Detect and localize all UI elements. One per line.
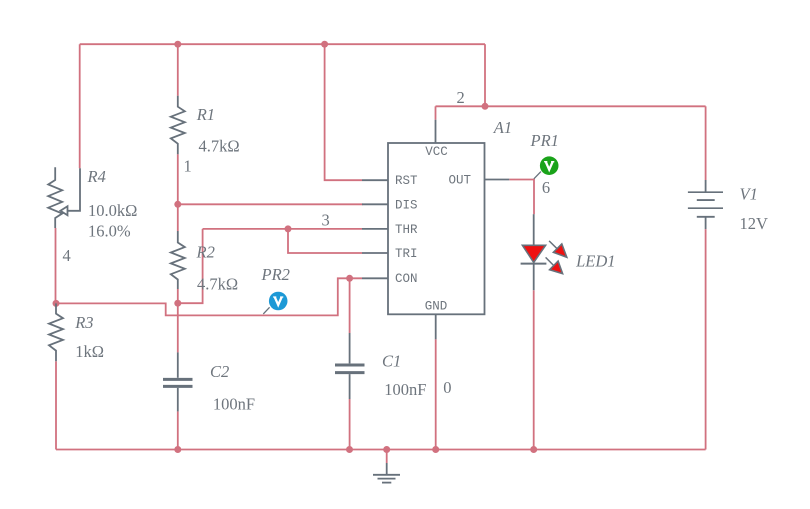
svg-text:100nF: 100nF [213,395,255,414]
svg-text:R4: R4 [87,167,106,186]
svg-text:4: 4 [63,246,71,265]
svg-text:R1: R1 [196,105,215,124]
svg-text:0: 0 [443,378,451,397]
svg-text:C2: C2 [210,362,229,381]
svg-text:RST: RST [395,174,418,188]
svg-text:1: 1 [184,157,192,176]
svg-text:GND: GND [425,300,448,314]
svg-text:VCC: VCC [425,145,448,159]
svg-text:1kΩ: 1kΩ [75,342,104,361]
svg-text:PR2: PR2 [261,265,290,284]
svg-text:6: 6 [542,178,550,197]
svg-text:DIS: DIS [395,198,418,212]
svg-text:C1: C1 [382,352,401,371]
svg-text:4.7kΩ: 4.7kΩ [199,136,240,155]
svg-text:V1: V1 [740,185,758,204]
svg-text:3: 3 [322,211,330,230]
svg-text:12V: 12V [740,214,769,233]
svg-text:16.0%: 16.0% [88,222,131,241]
svg-text:4.7kΩ: 4.7kΩ [197,275,238,294]
svg-text:10.0kΩ: 10.0kΩ [88,201,137,220]
svg-text:2: 2 [457,88,465,107]
svg-text:R3: R3 [74,313,93,332]
svg-text:THR: THR [395,223,418,237]
svg-text:R2: R2 [196,243,215,262]
svg-text:PR1: PR1 [530,131,559,150]
svg-text:A1: A1 [493,118,512,137]
svg-text:CON: CON [395,272,418,286]
svg-text:LED1: LED1 [575,252,615,271]
svg-text:OUT: OUT [448,174,471,188]
svg-text:TRI: TRI [395,247,418,261]
svg-text:100nF: 100nF [384,380,426,399]
